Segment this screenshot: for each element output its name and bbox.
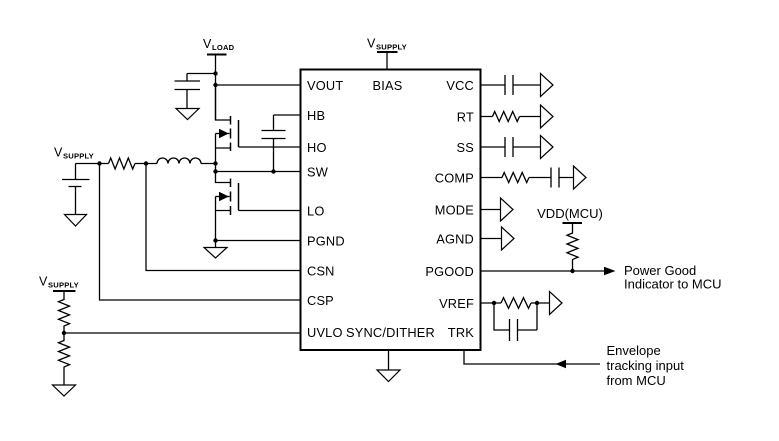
net label VSUPPLY (BIAS) bbox=[367, 37, 407, 52]
annotation Envelope tracking bbox=[607, 343, 685, 388]
node dot PGOOD bbox=[570, 269, 574, 273]
ground right AGND bbox=[502, 227, 515, 250]
svg-text:LOAD: LOAD bbox=[212, 43, 235, 52]
ground at PGND bbox=[204, 241, 227, 259]
node dot PGND bbox=[213, 238, 217, 242]
svg-text:VDD(MCU): VDD(MCU) bbox=[537, 206, 603, 221]
capacitor C_IN (battery style) bbox=[62, 164, 90, 215]
wire AGND bbox=[481, 238, 502, 240]
node dot CSN sense bbox=[144, 161, 148, 165]
net label VSUPPLY (UVLO divider) bbox=[39, 275, 79, 290]
wire VCC bbox=[481, 84, 541, 86]
pin label PGOOD bbox=[425, 264, 474, 279]
svg-text:V: V bbox=[39, 275, 48, 289]
pin label COMP bbox=[435, 171, 474, 186]
svg-text:RT: RT bbox=[457, 110, 474, 125]
pin label CSP bbox=[307, 293, 334, 308]
svg-text:CSN: CSN bbox=[307, 264, 335, 279]
pin label MODE bbox=[435, 203, 474, 218]
transistor Q2 (low-side NMOS) bbox=[216, 172, 239, 241]
pin label UVLO bbox=[307, 325, 343, 340]
node dot VLOAD/cap bbox=[213, 71, 217, 75]
net label VLOAD bbox=[203, 37, 235, 52]
svg-text:UVLO: UVLO bbox=[307, 325, 343, 340]
svg-text:Indicator to MCU: Indicator to MCU bbox=[624, 277, 722, 292]
svg-text:LO: LO bbox=[307, 204, 324, 219]
ground right MODE bbox=[501, 198, 514, 221]
wire CSP vertical and to IC bbox=[100, 164, 301, 301]
svg-text:BIAS: BIAS bbox=[373, 78, 403, 93]
svg-text:V: V bbox=[367, 37, 376, 51]
wire TRK envelope input bbox=[464, 350, 600, 368]
pin label LO bbox=[307, 204, 324, 219]
inductor L1 bbox=[157, 158, 201, 164]
pin label RT bbox=[457, 110, 474, 125]
resistor R_COMP bbox=[502, 173, 529, 183]
svg-text:AGND: AGND bbox=[436, 232, 474, 247]
ground below IC bbox=[377, 350, 400, 382]
ground under C_VLOAD bbox=[176, 109, 199, 120]
ground right VREF bbox=[550, 292, 563, 315]
transistor Q1 (high-side NMOS) bbox=[216, 85, 239, 164]
svg-text:V: V bbox=[54, 146, 63, 160]
pin label VCC bbox=[446, 78, 474, 93]
pin label CSN bbox=[307, 264, 335, 279]
wire VLOAD vertical bbox=[215, 55, 217, 121]
wire HB to IC bbox=[274, 114, 301, 116]
capacitor C_HB bbox=[262, 115, 286, 172]
wire SS bbox=[481, 146, 541, 148]
svg-text:SUPPLY: SUPPLY bbox=[48, 281, 79, 290]
annotation Power Good bbox=[624, 263, 722, 292]
resistor R_sense bbox=[109, 158, 136, 169]
pin label SS bbox=[457, 140, 474, 155]
wire PGOOD with arrow bbox=[481, 267, 616, 275]
ground under C_IN bbox=[65, 215, 87, 227]
pin label SYNC/DITHER bbox=[346, 325, 435, 340]
wire HO gate to IC bbox=[239, 146, 301, 148]
pin label HO bbox=[307, 140, 327, 155]
svg-text:COMP: COMP bbox=[435, 171, 474, 186]
node dot inductor junction bbox=[213, 161, 217, 165]
UVLO divider rail bar bbox=[53, 290, 76, 292]
ground under R_UV2 bbox=[53, 385, 76, 396]
svg-text:tracking input: tracking input bbox=[607, 358, 685, 373]
node dot SW at FET leg bbox=[213, 169, 217, 173]
svg-text:VREF: VREF bbox=[439, 296, 474, 311]
svg-text:SUPPLY: SUPPLY bbox=[376, 43, 407, 52]
net label VDD(MCU) bbox=[537, 206, 603, 221]
pin label PGND bbox=[307, 234, 345, 249]
node dot CSP sense bbox=[97, 161, 101, 165]
svg-text:SYNC/DITHER: SYNC/DITHER bbox=[346, 325, 435, 340]
pin label VOUT bbox=[307, 78, 343, 93]
node dot VOUT branch bbox=[213, 83, 217, 87]
pin label HB bbox=[307, 108, 325, 123]
net label VSUPPLY (input) bbox=[54, 146, 94, 161]
svg-text:VOUT: VOUT bbox=[307, 78, 343, 93]
wire SW to IC bbox=[216, 171, 301, 173]
VLOAD rail bar bbox=[207, 54, 227, 56]
node dot VREF left bbox=[492, 301, 496, 305]
resistor R_VREF bbox=[501, 298, 531, 309]
wire CSN vertical and to IC bbox=[146, 164, 300, 271]
capacitor C_VLOAD bbox=[175, 74, 216, 109]
svg-text:HB: HB bbox=[307, 108, 325, 123]
svg-text:SUPPLY: SUPPLY bbox=[63, 152, 94, 161]
pin label VREF bbox=[439, 296, 474, 311]
pin label SW bbox=[307, 165, 329, 180]
wire VREF bbox=[481, 302, 550, 304]
ground right SS bbox=[541, 136, 554, 159]
svg-text:TRK: TRK bbox=[448, 325, 474, 340]
pin label AGND bbox=[436, 232, 474, 247]
capacitor C_VCC bbox=[505, 75, 513, 95]
svg-text:MODE: MODE bbox=[435, 203, 474, 218]
BIAS rail bar bbox=[377, 51, 398, 53]
capacitor C_VREF branch bbox=[494, 303, 537, 341]
svg-text:SW: SW bbox=[307, 165, 329, 180]
VDD rail bar bbox=[563, 222, 583, 224]
wire PGND to IC bbox=[216, 240, 301, 242]
resistor R_PGOOD pullup bbox=[567, 223, 578, 271]
resistor R_UV1 bbox=[59, 291, 70, 333]
node dot SW at HB cap bbox=[271, 169, 275, 173]
wire MODE bbox=[481, 209, 501, 211]
wire input rail bbox=[76, 163, 216, 165]
resistor R_UV2 bbox=[59, 333, 70, 385]
capacitor C_SS bbox=[505, 137, 513, 157]
resistor R_RT bbox=[493, 112, 520, 122]
capacitor C_COMP bbox=[551, 168, 559, 188]
pin label BIAS bbox=[373, 78, 403, 93]
wire COMP bbox=[481, 177, 574, 179]
ground right VCC bbox=[541, 74, 554, 97]
wire VOUT to IC bbox=[216, 84, 301, 86]
svg-text:PGOOD: PGOOD bbox=[425, 264, 474, 279]
svg-text:VCC: VCC bbox=[446, 78, 474, 93]
ground right COMP bbox=[574, 166, 587, 189]
svg-text:CSP: CSP bbox=[307, 293, 334, 308]
svg-text:Envelope: Envelope bbox=[607, 343, 661, 358]
svg-text:HO: HO bbox=[307, 140, 327, 155]
svg-text:V: V bbox=[203, 37, 212, 51]
svg-text:from MCU: from MCU bbox=[607, 373, 666, 388]
wire SW node vertical bbox=[215, 164, 217, 172]
wire LO gate to IC bbox=[239, 210, 301, 212]
node dot UVLO bbox=[62, 331, 66, 335]
svg-text:PGND: PGND bbox=[307, 234, 345, 249]
svg-text:SS: SS bbox=[457, 140, 474, 155]
wire UVLO to IC bbox=[64, 332, 300, 334]
ground right RT bbox=[541, 105, 554, 128]
wire RT bbox=[481, 116, 541, 118]
node dot VREF right bbox=[535, 301, 539, 305]
wire BIAS stub bbox=[386, 52, 388, 70]
pin label TRK bbox=[448, 325, 474, 340]
IC U1 body bbox=[301, 70, 481, 351]
